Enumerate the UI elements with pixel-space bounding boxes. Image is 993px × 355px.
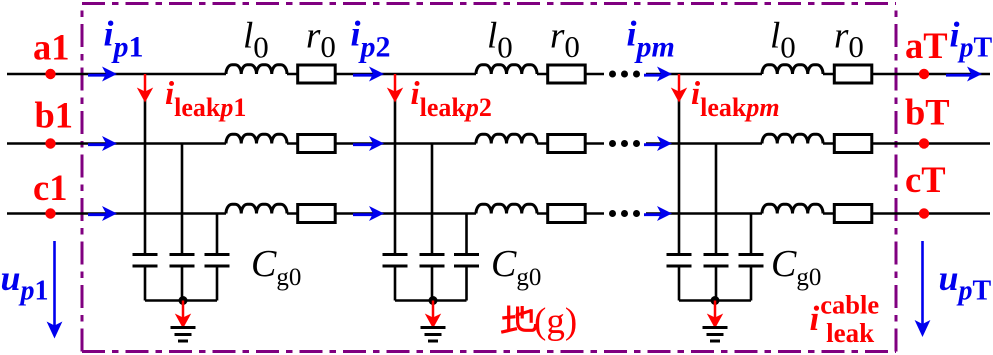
capacitor Cg0 phase a section 3 [667, 253, 692, 256]
wire capacitor bottom lead phase a section 3 [678, 266, 681, 301]
wire leak branch phase b section 1 [181, 144, 184, 255]
ground symbol section 2 [421, 326, 446, 329]
capacitor Cg0 phase b section 2 [420, 253, 445, 256]
wire leak branch phase b section 3 [715, 144, 718, 255]
svg-text:Cg0: Cg0 [771, 243, 821, 291]
wire leak branch phase b section 2 [431, 144, 434, 255]
inductor l0 phase a section 3 [762, 65, 823, 74]
inductor l0 phase c section 3 [762, 204, 823, 213]
resistor r0 phase a section 1 [298, 65, 336, 83]
wire capacitor bottom lead phase b section 3 [715, 266, 718, 301]
ground symbol section 3 [703, 326, 728, 329]
current arrow ip section 2 phase b [353, 143, 373, 146]
svg-text:l0: l0 [243, 16, 269, 65]
resistor r0 phase b section 2 [548, 135, 586, 153]
wire capacitor bottom lead phase a section 1 [144, 266, 147, 301]
svg-text:(g): (g) [534, 301, 577, 342]
capacitor Cg0 phase c section 2 [454, 253, 479, 256]
label ground net name 地(g) [501, 306, 535, 333]
svg-text:a1: a1 [33, 27, 70, 68]
node ground junction section 1 [179, 296, 188, 305]
wire leak branch phase c section 2 [465, 214, 468, 255]
svg-text:cT: cT [905, 159, 946, 200]
node terminal c1 [45, 208, 55, 218]
svg-text:ipm: ipm [627, 14, 675, 64]
node ground junction section 3 [711, 296, 720, 305]
node ground junction section 2 [429, 296, 438, 305]
inductor l0 phase c section 1 [226, 204, 287, 213]
current arrow ip section 2 phase c [353, 213, 373, 216]
inductor l0 phase a section 2 [476, 65, 537, 74]
leakage current arrow to ground section 3 [714, 301, 717, 318]
svg-text:Cg0: Cg0 [491, 243, 541, 291]
wire capacitor bottom lead phase a section 2 [394, 266, 397, 301]
wire leak branch phase c section 3 [750, 214, 753, 255]
svg-text:l0: l0 [487, 16, 513, 65]
node terminal aT [919, 69, 929, 79]
capacitor Cg0 phase b section 1 [170, 253, 195, 256]
inductor l0 phase c section 2 [476, 204, 537, 213]
capacitor Cg0 phase c section 1 [205, 253, 230, 256]
leakage current arrow ileak section 3 [678, 74, 681, 92]
inductor l0 phase b section 2 [476, 134, 537, 143]
svg-text:r0: r0 [550, 16, 580, 65]
ground symbol section 1 [171, 326, 196, 329]
node terminal a1 [45, 69, 55, 79]
wire ground rail section 1 [145, 299, 217, 302]
resistor r0 phase b section 3 [834, 135, 872, 153]
svg-text:ip1: ip1 [104, 14, 144, 64]
wire leak branch phase a section 1 [144, 100, 147, 255]
svg-text:ileakp1: ileakp1 [165, 76, 246, 122]
svg-text:ileakp2: ileakp2 [411, 76, 492, 122]
svg-text:ileakpm: ileakpm [691, 76, 780, 122]
inductor l0 phase b section 1 [226, 134, 287, 143]
current arrow ip section 1 phase c [88, 213, 106, 216]
svg-text:ip2: ip2 [351, 14, 391, 64]
leakage current arrow ileak section 2 [394, 74, 397, 92]
voltage arrow upT [921, 241, 924, 324]
wire capacitor bottom lead phase c section 3 [750, 266, 753, 301]
resistor r0 phase b section 1 [298, 135, 336, 153]
wire ground rail section 3 [679, 299, 751, 302]
current arrow ip section 1 phase b [88, 143, 106, 146]
resistor r0 phase c section 2 [548, 205, 586, 223]
current arrow ip section 3 phase b [644, 143, 661, 146]
wire ground rail section 2 [395, 299, 467, 302]
svg-text:aT: aT [905, 25, 948, 66]
node terminal cT [919, 208, 929, 218]
leakage current arrow to ground section 1 [182, 301, 185, 318]
leakage current arrow to ground section 2 [432, 301, 435, 318]
capacitor Cg0 phase c section 3 [739, 253, 764, 256]
resistor r0 phase a section 3 [834, 65, 872, 83]
capacitor Cg0 phase b section 3 [704, 253, 729, 256]
svg-text:r0: r0 [834, 16, 864, 65]
svg-text:b1: b1 [35, 95, 74, 136]
ellipsis continuation dots phase b [609, 140, 640, 147]
ellipsis continuation dots phase c [609, 210, 640, 217]
wire phase b horizontal conductor [7, 142, 990, 145]
resistor r0 phase c section 1 [298, 205, 336, 223]
wire leak branch phase a section 3 [678, 100, 681, 255]
svg-text:r0: r0 [306, 16, 336, 65]
inductor l0 phase b section 3 [762, 134, 823, 143]
current arrow ipT phase a [946, 74, 971, 77]
svg-text:ipT: ipT [950, 15, 993, 64]
svg-text:l0: l0 [770, 16, 796, 65]
node terminal bT [919, 138, 929, 148]
wire phase c horizontal conductor [7, 212, 990, 215]
capacitor Cg0 phase a section 2 [383, 253, 408, 256]
current arrow ip section 3 phase a [644, 74, 661, 77]
capacitor Cg0 phase a section 1 [133, 253, 158, 256]
svg-text:icableleak: icableleak [810, 290, 880, 349]
svg-text:c1: c1 [33, 167, 67, 208]
current arrow ip section 1 phase a [88, 74, 106, 77]
wire leak branch phase a section 2 [394, 100, 397, 255]
svg-text:bT: bT [905, 92, 950, 133]
wire leak branch phase c section 1 [216, 214, 219, 255]
svg-text:Cg0: Cg0 [251, 243, 301, 291]
wire capacitor bottom lead phase b section 1 [181, 266, 184, 301]
inductor l0 phase a section 1 [226, 65, 287, 74]
svg-text:up1: up1 [1, 258, 49, 307]
wire capacitor bottom lead phase c section 2 [465, 266, 468, 301]
ellipsis continuation dots phase a [609, 71, 640, 78]
voltage arrow up1 [53, 241, 56, 326]
wire capacitor bottom lead phase c section 1 [216, 266, 219, 301]
current arrow ip section 2 phase a [353, 74, 373, 77]
resistor r0 phase a section 2 [548, 65, 586, 83]
node terminal b1 [45, 138, 55, 148]
current arrow ip section 3 phase c [644, 213, 661, 216]
wire capacitor bottom lead phase b section 2 [431, 266, 434, 301]
leakage current arrow ileak section 1 [144, 74, 147, 92]
resistor r0 phase c section 3 [834, 205, 872, 223]
svg-text:upT: upT [939, 258, 992, 307]
wire phase a horizontal conductor [7, 73, 990, 76]
